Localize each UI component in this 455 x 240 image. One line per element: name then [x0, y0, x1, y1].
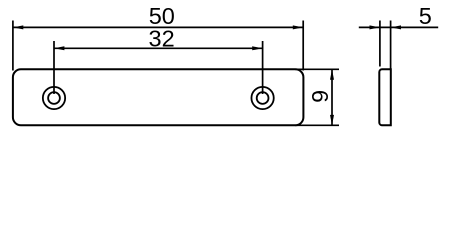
extension line left of dim 5 [379, 21, 381, 67]
hole 1 outer circle [43, 87, 65, 109]
arrowhead left of dim 5 (pointing right) [370, 25, 380, 29]
dimension line 5 [359, 26, 438, 28]
plate outline (front view) [13, 69, 304, 125]
extension line left of dim 32 (to hole 1 center) [53, 41, 55, 94]
extension line right of dim 5 [390, 21, 392, 70]
hole 2 outer circle [251, 87, 273, 109]
dimension line 50 [13, 26, 303, 28]
dimension line 32 [54, 47, 263, 49]
extension line bottom of dim 6 [295, 124, 339, 126]
arrowhead right of dim 5 (pointing left) [391, 25, 401, 29]
svg-text:6: 6 [307, 90, 333, 103]
arrowhead left of dim 32 [54, 46, 64, 50]
extension line right of dim 32 (to hole 2 center) [262, 41, 264, 94]
side view outline [379, 69, 391, 125]
hole 1 inner circle [48, 92, 60, 104]
arrowhead right of dim 32 [252, 46, 262, 50]
arrowhead right of dim 50 [293, 25, 303, 29]
svg-text:5: 5 [419, 3, 432, 29]
extension line top of dim 6 [295, 68, 339, 70]
dimension line 6 [331, 69, 333, 125]
arrowhead left of dim 50 [13, 25, 23, 29]
hole 2 inner circle [257, 92, 269, 104]
extension line right of dim 50 [302, 21, 304, 71]
svg-text:32: 32 [149, 25, 175, 51]
arrowhead top of dim 6 [330, 69, 334, 79]
extension line left of dim 50 [12, 21, 14, 71]
arrowhead bottom of dim 6 [330, 115, 334, 125]
